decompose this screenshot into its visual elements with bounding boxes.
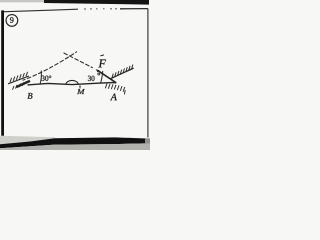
moment arc at M xyxy=(66,80,79,84)
label B xyxy=(27,93,32,99)
bar BA xyxy=(28,83,117,85)
force F label xyxy=(98,60,105,68)
force F arrowhead xyxy=(96,69,100,72)
right support surface line xyxy=(111,68,134,79)
left support ledge xyxy=(16,81,30,87)
dashed line of action of F xyxy=(64,53,93,68)
right degree symbol xyxy=(98,73,100,75)
left angle label 30deg xyxy=(42,76,52,81)
paper background xyxy=(0,0,150,150)
right angle arc xyxy=(101,71,103,84)
problem number circle xyxy=(6,15,18,27)
force F overbar xyxy=(100,55,104,56)
inner top rule dots xyxy=(84,8,117,10)
inner top rule line xyxy=(2,9,79,12)
inner top rule right segment xyxy=(120,8,148,10)
left angle arc xyxy=(40,71,41,85)
problem number 9 xyxy=(10,17,13,23)
bottom band faded right corner xyxy=(145,139,150,144)
top gray band left part xyxy=(0,0,52,2)
label M xyxy=(77,89,85,94)
right support stray tick xyxy=(123,90,126,94)
bottom gray margin xyxy=(0,143,150,150)
bottom black band xyxy=(0,137,150,148)
left black strip xyxy=(1,10,4,135)
left support surface line xyxy=(8,76,29,84)
left support hatching xyxy=(10,72,28,82)
label A xyxy=(110,94,117,101)
right border line xyxy=(147,9,149,138)
force F vector shaft xyxy=(98,70,117,83)
dashed reaction line from B xyxy=(23,52,77,81)
left support lower hatching xyxy=(13,82,25,90)
bottom page-edge gray wedge xyxy=(0,136,55,144)
right angle label 30deg xyxy=(88,76,95,81)
right support lower hatching xyxy=(105,84,125,92)
moment arc arrowhead tick xyxy=(79,86,81,90)
top black band right part xyxy=(44,0,149,5)
right support upper hatching xyxy=(112,65,133,79)
